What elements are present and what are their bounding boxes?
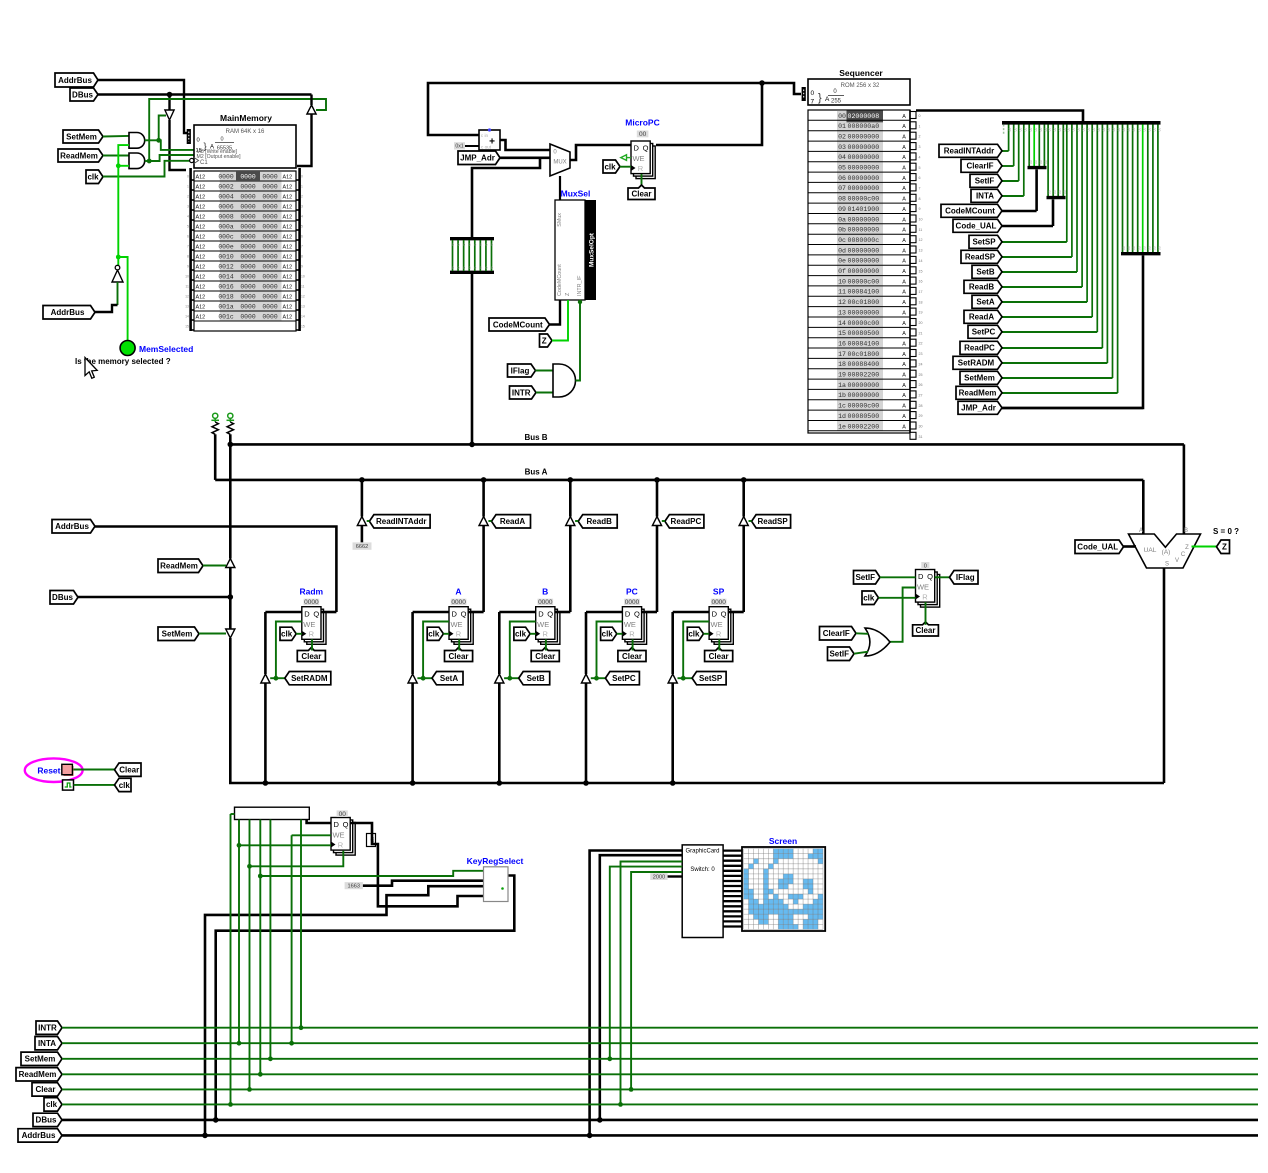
svg-text:SetSP: SetSP — [699, 674, 723, 683]
wire R1 to Bus A — [214, 434, 217, 480]
wire AND U2 to RAM M2 output-enable — [149, 155, 194, 161]
svg-text:Clear: Clear — [622, 652, 642, 661]
svg-text:01401900: 01401900 — [848, 206, 880, 213]
wire CodeMCount from splitter — [1002, 210, 1037, 213]
wire ReadSP from splitter — [1002, 256, 1072, 258]
svg-text:A12: A12 — [196, 265, 206, 271]
register MicroPC — [636, 146, 655, 179]
svg-text:0006: 0006 — [218, 204, 234, 211]
svg-text:Bus A: Bus A — [525, 468, 548, 477]
svg-text:10: 10 — [919, 218, 923, 222]
svg-text:0000: 0000 — [262, 274, 278, 281]
junction Bus B / jump splitter — [469, 442, 475, 448]
svg-text:MUX: MUX — [553, 160, 566, 166]
svg-text:clk: clk — [281, 630, 293, 639]
svg-text:ClearIF: ClearIF — [966, 162, 993, 171]
output pin SetMem (sequencer) — [960, 371, 1002, 384]
wire IFlag reset to Clear — [925, 602, 927, 625]
wire D input column (PC) — [586, 611, 622, 614]
svg-text:11: 11 — [838, 289, 846, 296]
input pin AddrBus (bottom rail) — [18, 1129, 62, 1142]
svg-text:00: 00 — [1063, 128, 1067, 132]
input pin Clear (A) — [445, 648, 473, 662]
svg-text:ReadMem: ReadMem — [60, 151, 98, 160]
svg-text:A: A — [902, 352, 906, 358]
wire ReadMem column to KeyRegSelect enable — [259, 820, 261, 1075]
svg-text:WE: WE — [332, 831, 344, 840]
svg-text:21: 21 — [919, 331, 923, 335]
input pin SetSP — [692, 672, 726, 685]
svg-text:D: D — [918, 572, 924, 581]
svg-text:SetB: SetB — [527, 674, 545, 683]
wire SetPC buffer to rail — [585, 683, 588, 783]
wire clock to clk label — [74, 784, 115, 786]
svg-text:R: R — [922, 593, 928, 602]
svg-text:A12: A12 — [196, 175, 206, 181]
svg-text:AddrBus: AddrBus — [22, 1131, 56, 1140]
wire SetSP from splitter — [1002, 241, 1067, 243]
wire buffer to constant 6662 — [361, 526, 364, 543]
wire MicroPC feedback loop (top) — [428, 83, 762, 145]
svg-text:02: 02 — [838, 133, 846, 140]
svg-text:A: A — [902, 145, 906, 151]
svg-text:16: 16 — [838, 340, 846, 347]
wire SetIF from splitter — [1002, 180, 1019, 182]
splitter CodeMCount sub-bar — [1028, 125, 1030, 167]
svg-text:ReadINTAddr: ReadINTAddr — [376, 517, 427, 526]
svg-text:0000: 0000 — [451, 599, 466, 606]
svg-text:A: A — [902, 166, 906, 172]
svg-text:17: 17 — [838, 351, 846, 358]
register IFlag flip-flop U3 — [921, 575, 940, 608]
splitter Code_UAL sub-bar — [1047, 125, 1049, 197]
svg-text:AddrBus: AddrBus — [51, 308, 85, 317]
input pin clk (memory) — [86, 170, 103, 184]
svg-text:A12: A12 — [196, 285, 206, 291]
svg-text:SetA: SetA — [976, 298, 994, 307]
junction rail / B load column — [497, 780, 503, 786]
svg-text:00000000: 00000000 — [848, 382, 880, 389]
wire splitter to Bus B — [471, 274, 474, 444]
svg-text:00: 00 — [1039, 160, 1043, 164]
svg-text:0002: 0002 — [218, 184, 234, 191]
output pin Code_UAL (sequencer) — [953, 219, 1002, 232]
svg-text:ReadA: ReadA — [969, 313, 995, 322]
junction rail / PC load column — [583, 780, 589, 786]
svg-text:00000000: 00000000 — [848, 309, 880, 316]
svg-text:clk: clk — [515, 630, 527, 639]
svg-text:D: D — [633, 144, 639, 153]
svg-text:0: 0 — [480, 266, 482, 270]
svg-text:R: R — [716, 630, 722, 639]
wire JMP_Adr bus from right splitter — [1002, 255, 1143, 408]
svg-text:A12: A12 — [283, 215, 293, 221]
wire adder output to MUX input 0 — [500, 140, 550, 150]
wire to MemSelected LED — [118, 257, 127, 341]
input pin clk (A) — [427, 627, 443, 640]
svg-text:00000000: 00000000 — [848, 154, 880, 161]
wire clk rail — [62, 1103, 1258, 1105]
svg-text:00: 00 — [1063, 190, 1067, 194]
svg-text:00000000: 00000000 — [848, 392, 880, 399]
input pin ClearIF — [820, 627, 857, 641]
svg-text:00002200: 00002200 — [848, 423, 880, 430]
svg-text:A: A — [902, 124, 906, 130]
junction Bus A / ReadB — [568, 477, 574, 483]
wire keyboard column SetMem (x=270.4) — [269, 820, 271, 1059]
input pin AddrBus (middle) — [52, 520, 95, 534]
svg-text:clk: clk — [863, 594, 875, 603]
register KeyReg (keyboard register) — [336, 823, 355, 856]
svg-text:Code_UAL: Code_UAL — [1077, 543, 1118, 552]
svg-text:CodeMCount: CodeMCount — [945, 207, 995, 216]
svg-text:A12: A12 — [283, 275, 293, 281]
svg-text:00000000: 00000000 — [848, 165, 880, 172]
svg-text:A: A — [825, 96, 830, 103]
svg-text:A12: A12 — [196, 195, 206, 201]
svg-text:00: 00 — [1142, 128, 1146, 132]
svg-text:11: 11 — [301, 285, 305, 289]
svg-text:00000c00: 00000c00 — [848, 196, 880, 203]
register A — [454, 612, 473, 645]
svg-text:0: 0 — [919, 114, 921, 118]
wire D input column (SP) — [673, 611, 709, 614]
wire JMP_Adr from splitter — [1002, 407, 1143, 410]
wire constant 2000 to GraphicCard — [668, 875, 683, 877]
svg-text:2: 2 — [187, 195, 189, 199]
svg-text:000a: 000a — [218, 224, 234, 231]
svg-text:12: 12 — [185, 295, 189, 299]
svg-text:00000000: 00000000 — [848, 144, 880, 151]
svg-text:01: 01 — [838, 123, 846, 130]
input pin ReadSP — [752, 515, 791, 528]
wire keyboard data to KeyReg D — [307, 820, 331, 824]
svg-text:0000: 0000 — [262, 254, 278, 261]
wire KeyReg Q to KeyRegSelect pin4 — [350, 823, 483, 906]
svg-text:0a: 0a — [838, 216, 846, 223]
svg-text:00080500: 00080500 — [848, 413, 880, 420]
svg-text:00: 00 — [1072, 128, 1076, 132]
svg-text:0000: 0000 — [240, 214, 256, 221]
svg-text:R: R — [542, 630, 548, 639]
svg-text:8: 8 — [301, 255, 303, 259]
svg-text:0000: 0000 — [262, 284, 278, 291]
junction risers on bus rails — [202, 1133, 208, 1139]
svg-text:23: 23 — [919, 352, 923, 356]
input pin clk (Radm) — [280, 627, 296, 640]
wire ClearIF from splitter — [1002, 165, 1014, 167]
svg-text:A12: A12 — [283, 195, 293, 201]
svg-text:001c: 001c — [218, 314, 234, 321]
svg-text:SetMem: SetMem — [162, 630, 193, 639]
svg-text:0000: 0000 — [538, 599, 553, 606]
svg-text:INTA: INTA — [976, 192, 994, 201]
svg-text:3: 3 — [919, 145, 921, 149]
wire constant 1663 to KeyRegSelect pin2 — [363, 881, 484, 886]
wire clk to IFlag — [879, 597, 916, 599]
svg-text:00: 00 — [1058, 128, 1062, 132]
svg-text:A12: A12 — [196, 225, 206, 231]
junction Bus A / ReadSP — [741, 477, 747, 483]
input pin DBus (top left) — [70, 88, 98, 101]
wire ReadA from splitter — [1002, 316, 1092, 318]
svg-text:A: A — [902, 259, 906, 265]
wire ReadSP buffer to Bus A — [742, 480, 745, 517]
wire SetA label to buffer — [417, 677, 432, 679]
input pin ReadMem (middle) — [158, 559, 203, 573]
svg-text:Clear: Clear — [35, 1085, 55, 1094]
svg-text:A: A — [902, 341, 906, 347]
wire Code_UAL to UAL — [1124, 545, 1137, 548]
svg-text:A: A — [902, 404, 906, 410]
svg-text:17: 17 — [919, 290, 923, 294]
output pin clk (clock net) — [115, 778, 132, 791]
wire NOT input from AddrBus — [117, 282, 119, 305]
svg-text:15: 15 — [838, 330, 846, 337]
svg-text:00: 00 — [339, 811, 347, 818]
constant 6662 (interrupt vector) — [353, 542, 372, 549]
junction SetSP net — [681, 676, 686, 681]
svg-text:12: 12 — [301, 295, 305, 299]
wire SetMem column to GraphicCard — [610, 867, 682, 1059]
svg-text:22: 22 — [919, 342, 923, 346]
svg-text:9: 9 — [187, 265, 189, 269]
wire buffer output down to RAM data-in — [170, 120, 187, 170]
output pin ReadB (sequencer) — [964, 280, 1002, 293]
svg-text:0: 0 — [452, 243, 454, 247]
input pin Clear (Radm) — [297, 648, 325, 662]
junction KeyReg clock column — [237, 843, 242, 848]
output pin SetB (sequencer) — [972, 265, 1002, 278]
svg-text:0000: 0000 — [262, 224, 278, 231]
svg-text:Reset: Reset — [37, 765, 60, 775]
svg-text:C1: C1 — [200, 160, 208, 166]
wire RAM data-out from table to buffer — [297, 114, 312, 166]
svg-text:00c01800: 00c01800 — [848, 299, 880, 306]
svg-text:0000: 0000 — [262, 294, 278, 301]
svg-text:04: 04 — [838, 154, 846, 161]
splitter dangling bit 0 — [1003, 125, 1005, 135]
wire DBus column upper — [229, 444, 232, 558]
tri-state buffer ReadINTAddr — [357, 517, 366, 526]
input pin SetIF (IFlag D) — [854, 571, 881, 585]
svg-text:00: 00 — [1122, 246, 1126, 250]
svg-text:Q: Q — [461, 609, 467, 618]
wire SetRADM from splitter — [1002, 362, 1107, 364]
wire clk to PC — [617, 633, 623, 635]
svg-text:0000: 0000 — [304, 599, 319, 606]
ROM highlighted cell (address 00) — [847, 110, 884, 122]
svg-text:0: 0 — [463, 266, 465, 270]
wire SetIF to D — [880, 576, 916, 578]
svg-text:Sequencer: Sequencer — [839, 68, 883, 78]
svg-text:0: 0 — [924, 564, 927, 570]
svg-text:00: 00 — [1013, 128, 1017, 132]
svg-text:0: 0 — [301, 175, 303, 179]
svg-text:0016: 0016 — [218, 284, 234, 291]
svg-text:D: D — [538, 609, 544, 618]
pull resistor R2 (Bus B) — [228, 413, 233, 418]
svg-text:0000: 0000 — [262, 174, 278, 181]
tri-state buffer SetPC (loads PC) — [581, 674, 590, 683]
svg-text:07: 07 — [838, 185, 846, 192]
wire ReadINTAddr enable stub — [367, 520, 370, 522]
component Keyboard buffer — [235, 807, 310, 819]
wire SetB from splitter — [1002, 271, 1077, 273]
svg-text:MuxSel: MuxSel — [561, 189, 591, 199]
svg-text:Clear: Clear — [301, 652, 321, 661]
tri-state buffer ReadA — [479, 517, 488, 526]
wire RAM data-out up to DBus — [310, 95, 312, 106]
svg-text:00: 00 — [1153, 246, 1157, 250]
mouse cursor — [85, 358, 97, 379]
svg-text:00: 00 — [1137, 246, 1141, 250]
svg-text:A: A — [902, 331, 906, 337]
svg-text:00: 00 — [1082, 128, 1086, 132]
input pin SetRADM — [285, 672, 331, 685]
svg-text:00: 00 — [1127, 246, 1131, 250]
svg-text:Q: Q — [343, 820, 349, 829]
wire WE net (SetA) — [423, 622, 449, 679]
wire Bus B to UAL B input — [1183, 444, 1186, 535]
svg-text:A12: A12 — [283, 235, 293, 241]
svg-text:A12: A12 — [196, 315, 206, 321]
svg-text:R: R — [629, 630, 635, 639]
svg-text:0x1: 0x1 — [455, 144, 463, 150]
constant 2000 (video address) — [650, 873, 667, 880]
svg-text:INTA: INTA — [38, 1039, 56, 1048]
svg-text:ReadA: ReadA — [500, 517, 526, 526]
wire Code_UAL bus from sub-bar — [1052, 199, 1055, 226]
svg-text:00: 00 — [1048, 128, 1052, 132]
svg-text:00088400: 00088400 — [848, 361, 880, 368]
GraphicCard row connector pins — [723, 849, 742, 851]
junction Bus B / DBus column — [228, 442, 234, 448]
svg-text:A12: A12 — [196, 205, 206, 211]
svg-text:Code_UAL: Code_UAL — [956, 222, 997, 231]
wire loop to ROM address input — [762, 83, 801, 94]
svg-text:9: 9 — [301, 265, 303, 269]
wire WE net (SetSP) — [683, 622, 709, 679]
svg-text:00000000: 00000000 — [848, 258, 880, 265]
wire memory-selected net (bright green vertical) — [118, 145, 129, 265]
svg-text:A: A — [902, 279, 906, 285]
wire DBus tap — [78, 596, 230, 599]
svg-text:00: 00 — [1023, 128, 1027, 132]
svg-text:00: 00 — [1102, 128, 1106, 132]
svg-text:B: B — [542, 587, 548, 597]
wire SetA from splitter — [1002, 301, 1087, 303]
svg-text:0: 0 — [452, 266, 454, 270]
svg-text:29: 29 — [919, 414, 923, 418]
register SP — [714, 612, 733, 645]
wire SP reset to Clear — [718, 639, 720, 650]
wire SetA buffer to rail — [411, 683, 414, 783]
svg-text:Z: Z — [1222, 543, 1227, 552]
wire ReadMem rail — [62, 1073, 1258, 1075]
multiplexer MUX (MicroPC source select) — [550, 144, 570, 176]
wire ReadMem enable — [203, 565, 226, 567]
svg-text:ReadSP: ReadSP — [965, 253, 996, 262]
ellipse highlight around Reset — [25, 758, 83, 782]
svg-text:A12: A12 — [283, 285, 293, 291]
svg-text:00: 00 — [1117, 128, 1121, 132]
output pin ClearIF (sequencer) — [961, 159, 1002, 172]
input pin DBus (middle) — [50, 591, 78, 605]
input pin INTA (bottom rail) — [35, 1037, 62, 1050]
wire DBus riser to GraphicCard — [600, 855, 682, 1120]
svg-text:ReadINTAddr: ReadINTAddr — [944, 147, 995, 156]
input pin INTR (AND) — [510, 386, 537, 399]
input pin SetB — [519, 672, 550, 685]
input pin Z (MuxSel) — [540, 334, 553, 347]
svg-text:A: A — [902, 176, 906, 182]
wire D input column (A) — [413, 611, 449, 614]
junction rail / Radm load column — [263, 780, 269, 786]
svg-text:14: 14 — [838, 320, 846, 327]
svg-text:00000000: 00000000 — [848, 268, 880, 275]
svg-text:Clear: Clear — [631, 190, 651, 199]
wire AddrBus to RAM address port — [98, 80, 190, 133]
svg-text:A: A — [902, 134, 906, 140]
svg-text:00000000: 00000000 — [848, 185, 880, 192]
tri-state buffer SetMem (drives bus down) — [226, 629, 235, 638]
svg-text:0: 0 — [491, 243, 493, 247]
svg-text:00: 00 — [1153, 128, 1157, 132]
svg-text:12: 12 — [919, 238, 923, 242]
svg-text:PC: PC — [626, 587, 638, 597]
wire DBus column lower to result rail — [230, 638, 1164, 783]
wire keyboard column INTR (x=301) — [300, 820, 302, 1028]
svg-text:GraphicCard: GraphicCard — [685, 849, 719, 855]
svg-text:00: 00 — [1044, 160, 1048, 164]
svg-text:A: A — [902, 197, 906, 203]
svg-text:8: 8 — [187, 255, 189, 259]
svg-text:Q: Q — [313, 609, 319, 618]
wire clk to Radm — [296, 633, 302, 635]
svg-text:A12: A12 — [196, 295, 206, 301]
input pin Clear (SP) — [705, 648, 733, 662]
svg-text:c in: c in — [481, 133, 489, 138]
svg-text:000c: 000c — [218, 234, 234, 241]
wire D input column (Radm) — [265, 611, 301, 614]
svg-text:Clear: Clear — [709, 652, 729, 661]
register Radm — [307, 612, 326, 645]
svg-text:12: 12 — [838, 299, 846, 306]
svg-text:SetSP: SetSP — [972, 238, 996, 247]
svg-text:28: 28 — [919, 404, 923, 408]
svg-text:0000: 0000 — [262, 184, 278, 191]
register B — [541, 612, 560, 645]
svg-text:R: R — [309, 630, 315, 639]
svg-text:A: A — [902, 290, 906, 296]
wire DBus rail — [62, 1119, 1258, 1122]
svg-text:SMux: SMux — [557, 213, 563, 227]
wire keyboard column clk (x=230.5) — [230, 814, 232, 1104]
svg-text:00000c00: 00000c00 — [848, 403, 880, 410]
svg-text:14: 14 — [185, 315, 189, 319]
Bus B horizontal — [230, 443, 1184, 446]
wire SetSP buffer to rail — [671, 683, 674, 783]
svg-text:00: 00 — [1048, 190, 1052, 194]
input pin SetIF (OR) — [828, 647, 855, 661]
wire SetB label to buffer — [504, 677, 519, 679]
svg-text:Screen: Screen — [769, 836, 797, 846]
wire ReadPC enable stub — [662, 520, 665, 522]
svg-text:SetPC: SetPC — [972, 328, 996, 337]
wire SetB buffer to rail — [498, 683, 501, 783]
tri-state buffer ReadPC — [652, 517, 661, 526]
